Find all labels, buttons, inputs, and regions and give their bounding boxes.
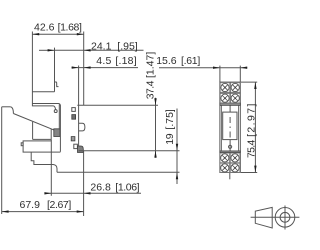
third angle projection symbol: vertical centerline [284,206,286,230]
arrow 37.4 bottom outside [154,151,156,158]
arrow 24.1 left outside [48,49,55,51]
side view: lower block rectangle [23,141,51,152]
front view: top block row divider [220,92,240,94]
svg-text:42.6: 42.6 [34,22,55,34]
side view: latch hatched block [54,129,60,137]
front view: bottom center stub [229,173,231,180]
arrow 26.8 right outside [84,192,91,194]
side view: chimney left edge + 42.6 extension [31,32,33,107]
arrow 37.4 top outside [154,98,156,105]
side view: vertical below clip diagonal end [50,129,52,141]
screw terminal top row1 col1 [220,83,229,92]
dimension 67.9 line [2,211,84,213]
side view: chimney right blip tab [55,82,59,87]
side view: right wall right edge + 42.6/4.5 right extension [83,32,85,106]
dimension 75.4 top extension [241,81,257,83]
dimension 15.6 line [159,67,247,69]
svg-text:[2.67]: [2.67] [47,199,71,211]
svg-text:[1.68]: [1.68] [58,22,82,34]
svg-text:[.95]: [.95] [117,40,138,52]
svg-text:24.1: 24.1 [91,40,112,52]
arrowheads [2,33,257,213]
side view: top box right double vertical [58,104,60,129]
svg-text:[1.47]: [1.47] [144,52,156,78]
side view: clip hole circle [54,110,57,113]
svg-text:[.61]: [.61] [181,55,200,67]
arrow 4.5 left outside [72,66,79,68]
side view: clip top edge [2,106,11,108]
front view: small hole circle [229,145,232,148]
third angle projection symbol: horizontal centerline [251,216,300,218]
svg-text:15.6: 15.6 [156,55,177,67]
dimension 19 vertical line [176,109,178,185]
side view: terminal slot square 1 [72,108,76,112]
screw terminal bottom row1 col1 [220,153,229,162]
svg-text:26.8: 26.8 [90,181,111,193]
svg-text:75.4: 75.4 [245,140,257,158]
side view: upper edge of block area [33,138,51,140]
side view: step line between clip and block [32,122,34,140]
side view: D bump on right face [79,123,85,131]
side view: body top edge right part + 37.4 extension [77,104,158,106]
side view: 26.8 left extension from block corner [50,152,52,196]
side view: terminal slot square 3 [71,137,75,141]
dimension 37.4 vertical line [155,98,157,158]
arrow 42.6 left [32,33,39,35]
front view: center dashed line in cavity [229,114,231,140]
front view: center vertical line [229,82,231,112]
arrow 42.6 right [77,33,84,35]
front view: outer box [220,82,240,172]
front view: top block hatched band [220,103,240,106]
dimension 24.1 line with shelf [39,49,55,51]
screw terminal top row2 col1 [220,94,229,103]
side view: body top edge left part [32,104,60,106]
dimension 42.6 line [32,33,83,35]
side view: bottom edge + 19 extension line [57,171,180,173]
svg-text:4.5: 4.5 [96,55,111,67]
front view: relay cavity rectangle [223,112,237,140]
screw terminal top row2 col2 [231,94,240,103]
svg-text:[1.06]: [1.06] [115,181,139,193]
screw terminal bottom row2 col1 [220,163,229,172]
arrow 19 top outside [176,144,178,151]
arrow 15.6 left outside [213,67,220,69]
svg-text:67.9: 67.9 [20,199,41,211]
screw terminal top row1 col2 [231,83,240,92]
side view: bottom steps below block [31,152,57,172]
svg-text:[2.97]: [2.97] [245,102,257,137]
arrow 75.4 top [254,82,256,89]
side view: right step edge + 19/37.4 extension [79,150,180,152]
side view: terminal slot square 2 filled [72,115,76,120]
side view: spring clip left edge + 67.9 extension line [1,107,3,214]
front view: bottom block hatched band [220,151,240,153]
arrow 67.9 right [77,210,84,212]
dimension 75.4 bottom extension [241,172,257,174]
arrow 26.8 left outside [44,192,51,194]
side view: block bottom edge extension to right column [51,151,60,153]
screw terminal bottom row1 col2 [230,153,239,162]
dimension 15.6 right extension [239,66,241,83]
dimension texts [20,22,258,211]
arrow 15.6 right outside [240,67,247,69]
third angle projection symbol: outer circle [275,208,295,228]
side view: clip diagonal wire [13,114,56,131]
svg-text:19: 19 [164,133,176,145]
side view: right face lower edge + 26.8/67.9 extension [83,151,85,216]
side view: clip wire top segment bending to hole [33,106,56,110]
third angle projection symbol: inner circle [280,212,290,222]
third angle projection symbol: truncated cone trapezoid [255,207,272,228]
front view: top block bottom line [220,102,240,104]
side view: bottom right corner small rect [74,144,78,148]
side view: right wall left edge + 4.5 extension, continues as right face [78,66,80,151]
arrow 67.9 left [2,210,9,212]
arrow 4.5 right outside [84,66,91,68]
arrow 24.1 right outside [84,49,91,51]
svg-text:37.4: 37.4 [144,80,156,99]
dimension 26.8 line with shelf [45,192,142,194]
svg-text:[.75]: [.75] [164,109,176,130]
arrow 19 bottom outside [176,172,178,179]
dimension 15.6 left extension [219,66,221,83]
screw terminal bottom row2 col2 [230,163,239,172]
side view: bottom right corner blob [78,146,84,153]
side view: chimney bottom edge [32,91,54,93]
dimension 4.5 line with shelf [72,67,139,69]
side view: lower block left tab [21,143,23,146]
dimension 75.4 vertical line [254,82,256,172]
svg-text:[.18]: [.18] [115,55,136,67]
side view: chimney right edge + 24.1 extension [54,48,56,92]
front view: bottom block row divider [220,162,240,164]
arrow 75.4 bottom [254,166,256,173]
side view: clip notch curve [10,107,13,114]
